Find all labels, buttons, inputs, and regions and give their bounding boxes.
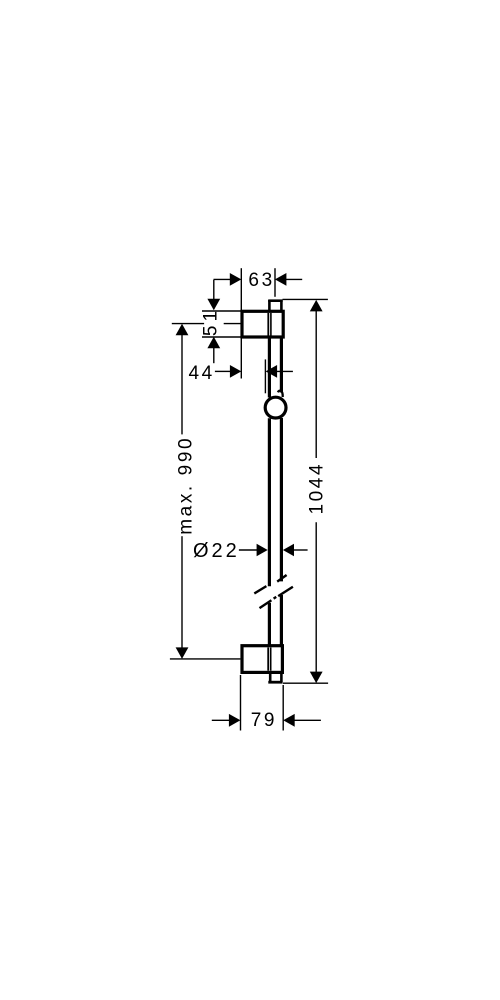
- extension line rod near edge (44): [264, 359, 266, 393]
- extension line max990 top (holder axis) segment a: [172, 323, 204, 325]
- rod upper stub left edge: [268, 300, 271, 311]
- rod bottom stub right edge: [280, 674, 283, 682]
- extension line 1044 top: [283, 298, 328, 300]
- arrowhead diam22 right (points left): [283, 544, 294, 556]
- holder bottom inner line a: [267, 648, 269, 671]
- dimension line max990 lower shaft: [181, 536, 183, 648]
- extension line max990 top segment b: [224, 323, 242, 325]
- arrowhead 44 right (points left): [266, 365, 278, 378]
- rod lower section left edge: [268, 603, 271, 646]
- dimension 63 tail right: [286, 278, 302, 280]
- break mark diagonal 2 segment a: [260, 600, 272, 608]
- break mark diagonal 1 segment b: [277, 575, 286, 582]
- svg-text:79: 79: [251, 710, 277, 731]
- holder bottom inner line b: [270, 648, 272, 671]
- svg-text:max. 990: max. 990: [176, 436, 197, 535]
- dimension line 1044 upper shaft: [315, 311, 317, 459]
- dimension diam22 right tail: [293, 549, 308, 551]
- dimension 44 right arrow tail: [276, 370, 293, 372]
- svg-text:Ø22: Ø22: [193, 540, 240, 562]
- dimension line max990 upper shaft: [181, 335, 183, 435]
- arrowhead 51 bottom (points up): [207, 337, 220, 349]
- holder top inner line b: [270, 313, 272, 336]
- wall holder bottom (outer rectangle): [242, 646, 282, 673]
- arrowhead 63 left (points right): [230, 273, 242, 286]
- arrowhead 79 left (points right): [229, 714, 241, 727]
- arrowhead 1044 bottom (points down): [310, 672, 323, 684]
- wall holder top (outer rectangle): [242, 311, 283, 337]
- rod bottom cap: [268, 681, 282, 684]
- dimension 63 tail left: [214, 278, 231, 280]
- rod lower section right edge: [280, 595, 283, 646]
- extension line rod axis (right side of 63): [274, 268, 276, 297]
- arrowhead 63 right (points left): [275, 273, 287, 286]
- arrowhead diam22 left (points right): [257, 544, 268, 556]
- rod middle section right edge: [280, 418, 283, 581]
- extension line holder top edge (51): [202, 310, 241, 312]
- svg-text:51: 51: [201, 307, 222, 336]
- holder top inner line a (rod left edge through holder): [267, 313, 269, 336]
- rod upper stub right edge: [280, 300, 283, 311]
- dimension diam22 left tail: [239, 549, 258, 551]
- rod middle section left edge: [268, 418, 271, 586]
- break mark diagonal 2 middle tick: [274, 597, 277, 599]
- extension line 1044 bottom: [283, 682, 328, 684]
- extension line 79 left: [240, 675, 242, 731]
- slider hook detail: [278, 391, 283, 397]
- slider holder circle: [265, 397, 286, 418]
- extension line 79 right: [282, 685, 284, 731]
- break mark diagonal 1 segment a: [254, 586, 266, 593]
- dimension line 1044 lower shaft: [315, 522, 317, 672]
- arrowhead 79 right (points left): [283, 714, 295, 727]
- arrowhead max990 top (points up): [176, 324, 189, 336]
- arrowhead 44 left (points right): [230, 365, 241, 378]
- arrowhead 1044 top (points up): [310, 300, 323, 312]
- dimension 51 upper arrow shaft: [213, 280, 215, 300]
- break mark diagonal 2 segment b: [278, 587, 293, 596]
- rod section below top holder left edge: [268, 339, 271, 398]
- rod bottom stub left edge: [269, 674, 272, 682]
- svg-text:44: 44: [189, 363, 215, 384]
- arrowhead max990 bottom (points down): [176, 647, 189, 659]
- dimension 79 left tail: [212, 719, 230, 721]
- extension line holder bottom edge (51): [202, 336, 241, 338]
- svg-text:63: 63: [248, 270, 274, 291]
- svg-text:1044: 1044: [307, 462, 328, 515]
- rod top cap: [268, 299, 283, 302]
- dimension 79 right tail: [294, 719, 321, 721]
- arrowhead 51 top (points down): [207, 299, 220, 311]
- dimension 44 tail: [215, 370, 231, 372]
- dimension 51 lower arrow shaft: [213, 348, 215, 364]
- extension line max990 bottom: [170, 658, 241, 660]
- rod section below top holder right edge: [280, 339, 283, 393]
- extension line wall-side (left of holder, for 63 and 44): [240, 268, 242, 378]
